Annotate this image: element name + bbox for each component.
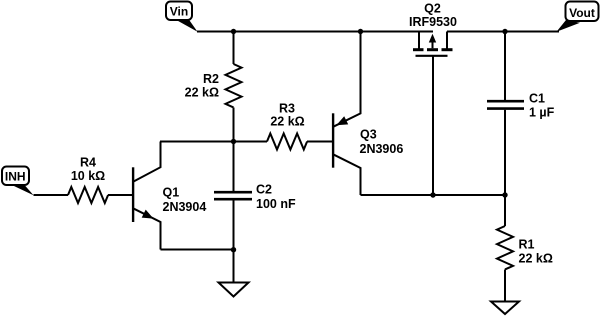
label R2 value 22 kOhm [185,72,219,100]
svg-text:Vin: Vin [170,4,188,18]
svg-text:Q2: Q2 [424,2,441,16]
wire: R2 bottom to C2 top plate [233,108,235,192]
svg-text:22 kΩ: 22 kΩ [270,115,304,129]
label Q1 2N3904 [163,186,207,215]
label R1 value 22 kOhm [519,238,553,266]
label Q3 2N3906 [360,128,404,157]
transistor Q2 IRF9530 (P-MOSFET) [413,32,453,56]
resistor R2 [226,64,242,107]
wire: R4 right lead to Q1 base [108,194,132,196]
wire: INH to R4 left lead [34,194,69,196]
svg-text:R2: R2 [203,72,219,86]
transistor Q3 2N3906 (PNP) [333,32,360,196]
svg-text:2N3904: 2N3904 [163,200,207,214]
wire: Q2 gate lead down to node [432,56,434,195]
svg-text:INH: INH [5,170,26,184]
label R4 value 10 kOhm [71,156,105,184]
svg-text:R4: R4 [80,156,96,170]
wire: Q1 emitter to junction [161,249,234,251]
svg-text:C1: C1 [529,92,545,106]
transistor Q1 2N3904 (NPN) [133,142,160,250]
svg-text:IRF9530: IRF9530 [409,15,457,29]
wire: C2 bottom plate to emitter junction [233,201,235,250]
wire: Vin rail from flag to Q2 source (net Vin) [197,31,433,33]
ground (left) [219,283,249,297]
svg-text:2N3906: 2N3906 [360,142,404,156]
node: Vin rail / R2 top junction [231,29,236,34]
wire: R1 top lead [504,195,506,226]
capacitor C1 [487,101,524,108]
wire: R3 right lead to Q3 base [307,141,332,143]
resistor R1 [497,226,513,269]
wire: Q1 collector line to junction [160,141,234,143]
wire: R1 bottom to ground [504,270,506,302]
svg-text:Q1: Q1 [163,186,180,200]
wire: emitter junction down to ground [233,250,235,283]
label R3 value 22 kOhm [270,102,304,129]
wire: C1 top lead [504,32,506,101]
node: Q2 gate / Q3 collector junction [430,192,435,197]
svg-text:R3: R3 [279,102,295,116]
flag Vin [166,2,198,32]
wire: R2 top lead [233,32,235,65]
label C2 value 100 nF [256,183,296,212]
node: C1 bottom / R1 top junction [502,192,507,197]
wire: C1 bottom lead to node [504,110,506,195]
node: Vin rail / Q3 emitter junction [358,29,363,34]
svg-text:22 kΩ: 22 kΩ [519,252,553,266]
node: R2 bottom / C2 / R3 / Q1 collector junction [231,139,236,144]
node: Q1 emitter / C2 bottom / ground junction [231,247,236,252]
svg-text:22 kΩ: 22 kΩ [185,86,219,100]
ground (right) [491,302,519,315]
svg-text:1 µF: 1 µF [529,106,555,120]
resistor R3 [267,134,307,150]
svg-text:10 kΩ: 10 kΩ [71,169,105,183]
svg-text:Q3: Q3 [360,128,377,142]
capacitor C2 [214,192,252,199]
svg-text:C2: C2 [256,183,272,197]
svg-text:R1: R1 [519,238,535,252]
flag INH [2,167,34,196]
label C1 value 1 uF [529,92,555,120]
resistor R4 [68,187,108,203]
svg-text:Vout: Vout [569,6,595,20]
wire: Q3 collector to gate node and on to R1 node [361,194,506,196]
node: Vout rail / C1 top junction [502,29,507,34]
label Q2 IRF9530 [409,2,457,30]
wire: Vout rail from Q2 drain to Vout flag [447,31,559,33]
flag Vout [557,2,599,32]
svg-text:100 nF: 100 nF [256,197,296,211]
wire: junction to R3 left lead [234,141,268,143]
